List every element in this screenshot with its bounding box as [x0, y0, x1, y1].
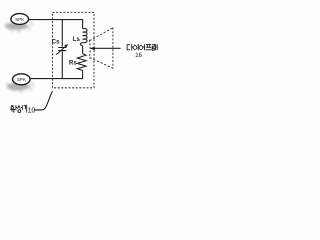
- terminal SPK1: [11, 14, 29, 25]
- wire right branch top segment: [82, 19, 84, 29]
- wire bottom (SPK2 to right branch): [30, 78, 83, 80]
- enclosure box (speaker 10, dashed): [53, 12, 95, 87]
- svg-text:Ls: Ls: [73, 37, 81, 43]
- leader arrow to diaphragm: [90, 47, 95, 51]
- wire between Ls and Rs: [82, 46, 84, 54]
- wire Cs branch top: [61, 20, 63, 47]
- diaphragm lower cone line (dashed): [90, 58, 113, 69]
- svg-text:Rs: Rs: [69, 61, 77, 67]
- label 다이어프램 (drawn glyphs): [127, 44, 157, 50]
- terminal SPK2: [12, 74, 30, 85]
- svg-text:SPK: SPK: [17, 77, 27, 82]
- variable-capacitor arrow through Cs: [56, 47, 65, 55]
- shadow of terminal SPK1: [5, 22, 33, 33]
- inductor Ls coil: [80, 28, 87, 45]
- diaphragm apex arc (dashed): [88, 40, 91, 59]
- capacitor Cs plates: [58, 48, 66, 51]
- wire top (SPK1 to right branch): [29, 19, 83, 21]
- resistor Rs zigzag: [77, 54, 86, 71]
- leader line from 확성기10 to box: [34, 91, 53, 110]
- diaphragm mouth line (dashed): [112, 28, 114, 69]
- svg-text:16: 16: [135, 53, 142, 59]
- label 확성기 (drawn glyphs): [10, 105, 27, 113]
- diaphragm upper cone line (dashed): [90, 28, 113, 41]
- wire Cs branch bottom: [61, 51, 63, 78]
- svg-text:Cs: Cs: [52, 40, 60, 46]
- shadow of terminal SPK2: [7, 82, 35, 93]
- svg-text:SPK: SPK: [15, 17, 25, 22]
- wire right branch bottom segment: [82, 70, 84, 79]
